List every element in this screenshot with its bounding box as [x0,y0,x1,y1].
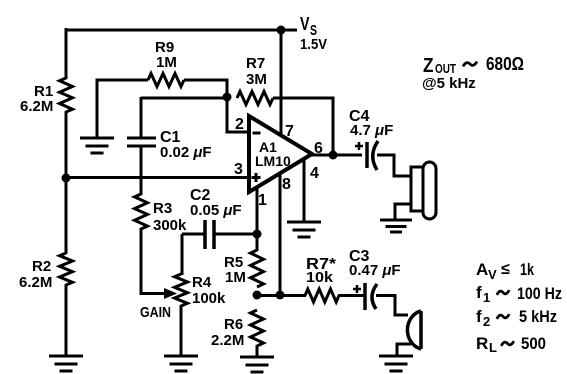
svg-text:R: R [476,334,488,353]
wire pin1 down [256,186,259,251]
C4 plus mark [355,142,363,150]
node pin1 C2 junction dot [253,230,262,239]
node input junction dot [62,174,71,183]
label LM10 [255,153,291,169]
svg-text:L: L [489,340,497,355]
resistor R4 potentiometer [175,274,188,306]
svg-text:2: 2 [483,314,490,329]
node R5 R6 junction dot [253,291,262,300]
wire speaker2 to ground [397,344,411,356]
svg-text:V: V [300,14,310,34]
svg-text:3M: 3M [246,71,267,88]
svg-text:1.5V: 1.5V [300,36,327,53]
label R9 value [155,39,177,71]
C3 plus mark [353,285,361,293]
label R7 value [246,55,267,88]
resistor R2 [60,253,73,285]
node pin8 row junction dot [276,291,285,300]
svg-text:0.47 μF: 0.47 μF [349,262,401,279]
svg-text:1: 1 [258,192,267,209]
resistor R7star 10k [305,289,339,302]
wire R9 right to junction [184,80,227,97]
capacitor C4 polarized [367,141,378,170]
wire C2 left to R4 top [181,234,184,275]
svg-text:f: f [476,307,482,326]
pin 3 label [234,161,243,178]
wire C1 bottom to R3 [140,147,143,195]
svg-text:4: 4 [310,165,319,182]
svg-text:OUT: OUT [435,61,456,76]
label R4 value [192,274,226,307]
wire top supply rail [66,29,297,32]
wire speaker1 to ground [395,204,411,220]
label f1 low corner [476,283,562,305]
pin 2 label [235,116,244,133]
svg-text:R6: R6 [224,316,243,333]
wire pin7 from supply [280,30,283,137]
label A1 [259,139,277,155]
wire C3 to speaker2 [376,296,408,316]
svg-text:1M: 1M [156,54,177,71]
wiper arrow R4 [164,288,177,299]
label C3 value [349,248,401,279]
capacitor C3 polarized [365,283,377,310]
svg-text:2: 2 [235,116,244,133]
pin 8 label [282,176,291,193]
wire left rail middle [65,111,68,254]
svg-text:@5 kHz: @5 kHz [422,75,476,92]
ground under R6 [240,357,274,372]
speaker SPK2 horn [407,311,421,349]
wire C1 top horizontal [141,97,227,100]
wire R9 left to ground tap [97,80,148,138]
svg-text:100 Hz: 100 Hz [517,284,562,303]
wire R6 to ground [256,345,259,357]
wire pin3 noninverting input [66,176,249,179]
label RL load [476,334,546,355]
node VS junction dot [277,26,286,35]
label R1 value [20,83,53,115]
label R6 value [211,316,244,349]
svg-text:V: V [488,267,497,282]
resistor R3 [135,194,148,229]
resistor R9 [148,74,184,87]
wire left rail upper [65,28,68,79]
svg-text:6.2M: 6.2M [19,274,52,291]
op-amp minus mark [253,132,261,135]
label VS 1.5V supply [300,14,327,53]
label R3 value [153,200,187,234]
svg-text:R2: R2 [32,258,51,275]
wire pin1 row to R7star [257,294,306,297]
svg-text:R4: R4 [192,274,212,291]
resistor R7 [237,92,273,105]
svg-text:R7: R7 [246,55,265,72]
wire C4 to speaker1 [377,155,412,176]
wire pin2 inverting input [227,97,249,132]
pin 1 label [258,192,267,209]
svg-text:1: 1 [483,290,490,305]
op-amp A1 LM10 triangle [249,116,312,192]
svg-text:4.7 μF: 4.7 μF [350,122,393,139]
wire R7 to output node [273,98,333,156]
svg-text:A: A [476,260,488,279]
op-amp plus mark [252,173,261,182]
wire pin4 [303,159,306,222]
svg-text:R3: R3 [153,200,172,217]
label ZOUT impedance [422,54,524,92]
label f2 high corner [476,307,557,329]
capacitor C1 [127,97,156,179]
svg-text:10k: 10k [306,269,334,286]
ground pin4 [287,222,321,237]
svg-text:≤: ≤ [501,261,510,278]
wire R7star to C3 [338,294,366,297]
svg-text:1M: 1M [225,269,246,286]
ground under R2 [49,356,83,371]
ground under speaker1 [380,220,412,232]
label R7star value [306,256,337,286]
svg-text:GAIN: GAIN [140,304,171,321]
resistor R5 [251,250,264,287]
svg-text:f: f [476,283,482,302]
ground under R9 left [80,138,114,153]
wire R4 to ground [180,305,183,356]
svg-text:2.2M: 2.2M [211,332,244,349]
label C2 value [190,187,242,219]
svg-text:680Ω: 680Ω [486,54,524,74]
label C4 value [349,108,393,139]
svg-text:100k: 100k [192,290,226,307]
node output junction dot [329,151,338,160]
svg-text:5 kHz: 5 kHz [519,307,557,326]
resistor R1 [60,78,73,112]
label R5 value [224,254,246,286]
speaker SPK1 driver [411,162,436,219]
svg-text:7: 7 [285,123,294,140]
label AV gain [476,260,534,282]
svg-text:0.05 μF: 0.05 μF [190,202,242,219]
svg-text:3: 3 [234,161,243,178]
wire R2 to ground [65,284,68,356]
wire pin8 down [279,173,282,296]
svg-text:0.02 μF: 0.02 μF [160,144,212,161]
resistor R6 [251,310,264,346]
svg-text:1k: 1k [520,260,534,279]
svg-text:LM10: LM10 [255,153,291,169]
pin 7 label [285,123,294,140]
svg-text:Z: Z [423,55,434,77]
pin 6 label [314,140,323,157]
ground under speaker2 [379,356,413,371]
wire R3 to wiper [141,228,166,294]
label GAIN [140,304,171,321]
label R2 value [19,258,52,291]
pin 4 label [310,165,319,182]
svg-text:300k: 300k [153,217,187,234]
svg-text:500: 500 [521,334,546,353]
ground under R4 [164,356,198,371]
wire output pin6 [310,154,362,157]
svg-text:8: 8 [282,176,291,193]
label C1 value [160,129,212,161]
node R9 R7 pin2 junction dot [223,93,232,102]
capacitor C2 [182,220,258,249]
svg-text:6.2M: 6.2M [20,98,53,115]
